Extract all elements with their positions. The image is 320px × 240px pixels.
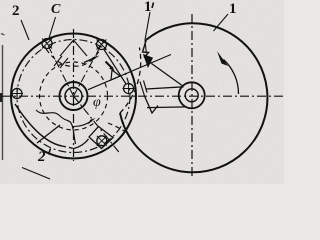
leader 2 [21,20,29,40]
wavy profile under hub [36,110,76,144]
spoke to roller C [45,40,73,96]
phi angle arc [74,121,93,127]
roller left [11,88,23,100]
svg-text:1: 1 [144,0,152,15]
leader 2' [22,168,50,180]
wheel rotation arrow (top) [84,58,94,63]
wheel 2 inner dashed circle [40,62,108,130]
radial phi line [74,96,121,154]
disc 1 hub outer [179,82,205,108]
roller up-right [97,40,107,50]
leader 1 [214,14,229,31]
dashed continuation [62,146,74,149]
crossing line X [37,125,60,143]
wheel 2 vertical centerline [73,29,75,161]
crank pos2 notch edge a [140,82,145,97]
rotation arrow disc 1 [224,60,239,95]
contact arrow [106,62,113,69]
chord roller to roller [104,50,126,85]
crank upper tangent [152,64,184,87]
wheel 2 hub inner [65,88,82,105]
disc 1 hub inner [185,89,198,102]
spoke to up-right roller [74,41,104,96]
svg-text:φ: φ [93,95,101,110]
line of centers through pin [88,55,171,90]
scallop to tab [74,139,89,149]
square tab around lower roller [89,127,113,149]
svg-text:1: 1 [229,1,237,17]
svg-text:C: C [51,2,61,17]
wheel 2 outer circle [11,34,136,159]
roller down-right [97,136,107,146]
roller right [123,83,135,95]
wheel 2 hub outer [60,82,88,110]
page edge artifact [2,45,4,160]
crank bottom line [147,106,186,109]
contact triangle marker [111,70,120,80]
horizontal centerline [2,95,283,97]
leader line 1' [145,12,150,53]
second position arc lower-left (2') [15,104,62,146]
wheel 2 pitch circle dash-dot [17,40,130,153]
pin 1' (filled) [144,55,153,68]
disc 1 notch [143,40,149,58]
disc 1 rim dashed (hidden part) [120,48,141,114]
disc 1 rim solid [120,23,267,172]
disc 1 vertical centerline [191,14,193,177]
crank top line [146,87,184,89]
crank pos2 notch edge b [144,81,148,93]
dashes near lower right [108,123,126,132]
interior lambda lines [60,40,87,56]
interior dashed scallop upper [46,49,100,66]
crank pos2 lower notch V [145,96,159,113]
leader C [49,17,56,38]
svg-text:2: 2 [37,149,46,165]
roller C up-left [42,39,52,49]
interior slashes [54,56,68,68]
svg-text:2: 2 [12,3,20,19]
